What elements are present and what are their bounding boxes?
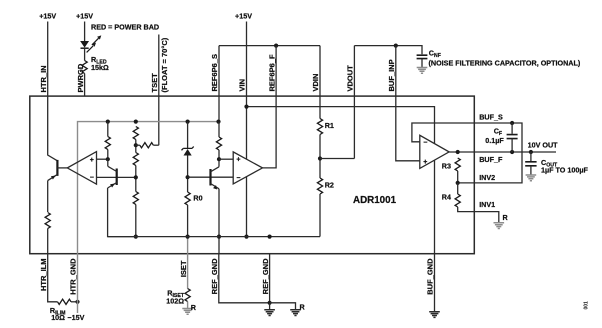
wire R_ILIM to HTR_GND wire bbox=[71, 301, 78, 303]
svg-text:REF6P6_F: REF6P6_F bbox=[267, 54, 276, 92]
resistor R0 bbox=[185, 192, 190, 205]
wire BUF_INP pin down to buffer + input bbox=[396, 46, 420, 161]
capacitor C_OUT bbox=[525, 162, 536, 166]
svg-text:INV2: INV2 bbox=[479, 173, 495, 182]
wire HTR_ILM pin down to R_ILIM bbox=[48, 254, 58, 302]
svg-text:R: R bbox=[503, 213, 509, 222]
wire C_NF to ground bbox=[421, 59, 423, 67]
resistor R6c bbox=[133, 192, 138, 205]
wire INV2 node to R4 bbox=[457, 183, 459, 194]
wire REF6P6_S pin down to internal node bbox=[218, 46, 220, 122]
svg-text:15kΩ: 15kΩ bbox=[91, 63, 109, 72]
wire bus to ISET pin (gray) bbox=[187, 237, 189, 254]
wire bus node to zener cathode bbox=[187, 122, 189, 149]
svg-text:TSET: TSET bbox=[150, 73, 159, 93]
svg-text:REF_GND: REF_GND bbox=[261, 258, 270, 294]
svg-text:VDOUT: VDOUT bbox=[346, 65, 355, 92]
op-amp U2 output buffer (points right) bbox=[420, 135, 449, 168]
wire R5 to A1 + node bbox=[107, 150, 109, 160]
wire A1 + input bbox=[97, 158, 108, 160]
svg-text:ADR1001: ADR1001 bbox=[353, 195, 397, 206]
wire +15V supply to LED anode bbox=[84, 22, 86, 42]
wire R6c to bottom bus bbox=[135, 205, 137, 237]
wire R8 to A2 + node bbox=[218, 150, 220, 159]
node A1 - tap bbox=[134, 175, 138, 179]
wire to HTR_ILM pin bbox=[47, 229, 49, 254]
resistor R6b bbox=[133, 153, 138, 166]
svg-text:1µF TO 100µF: 1µF TO 100µF bbox=[541, 166, 589, 175]
wire bus node to resistor R5 bbox=[107, 122, 109, 137]
wire A2 + input bbox=[219, 158, 233, 160]
svg-text:(NOISE FILTERING CAPACITOR, OP: (NOISE FILTERING CAPACITOR, OPTIONAL) bbox=[429, 59, 581, 68]
wire C_F to BUF_F node bbox=[511, 139, 513, 152]
svg-text:R: R bbox=[300, 302, 306, 311]
svg-text:10Ω: 10Ω bbox=[51, 313, 65, 322]
svg-text:+: + bbox=[423, 159, 427, 166]
wire HTR_GND pin down to -15V (gray) bbox=[77, 254, 79, 313]
wire R4 to INV1 and ground bbox=[458, 207, 499, 222]
resistor R5 (to A1 + input) bbox=[105, 137, 110, 150]
node U2 output / R3 bbox=[456, 150, 460, 154]
resistor R1 bbox=[317, 119, 322, 135]
wire ISET pin down to R_ISET (gray) bbox=[187, 254, 189, 289]
wire R1 to R2 bbox=[319, 135, 321, 179]
wire TSET pin (floating top end) down to internal divider bbox=[158, 35, 160, 146]
node gray bus / R6 chain bbox=[134, 120, 138, 124]
svg-text:REF_GND: REF_GND bbox=[210, 258, 219, 294]
wire A1 output to Q1 base bbox=[57, 167, 67, 169]
wire 10V OUT node to C_OUT bbox=[530, 152, 532, 161]
wire TSET tap to R7 bbox=[136, 144, 140, 146]
svg-text:+15V: +15V bbox=[39, 12, 56, 21]
wire Q2 emitter down to REF_GND pin bbox=[218, 189, 220, 254]
svg-text:0.1µF: 0.1µF bbox=[485, 136, 504, 145]
wire gray ground bus (HTR_GND net) bbox=[78, 122, 219, 254]
node R1/R2 divider tap bbox=[318, 156, 322, 160]
wire R_LED to PWRGD pin bbox=[84, 74, 86, 97]
wire divider tap to VDOUT bbox=[320, 158, 354, 160]
wire HTR_IN to Q1 collector bbox=[48, 96, 58, 161]
ground C_NF bbox=[417, 68, 428, 74]
ground C_OUT bbox=[526, 175, 537, 181]
svg-text:+15V: +15V bbox=[76, 12, 93, 21]
wire A2 V- supply to bottom bus bbox=[246, 177, 248, 237]
resistor R_LED bbox=[82, 61, 87, 74]
wire VIN rail to buffer V+ supply bbox=[247, 107, 435, 144]
node Q2 emitter / bottom bus bbox=[217, 235, 221, 239]
svg-text:ISET: ISET bbox=[179, 260, 188, 277]
svg-text:VIN: VIN bbox=[238, 79, 247, 92]
IC package outline U1 ADR1001 bbox=[30, 96, 475, 254]
node REF_GND junction bbox=[268, 301, 272, 305]
node gray bus / R5 chain bbox=[106, 120, 110, 124]
wire zener node to Q2 base and A2 - input bbox=[188, 176, 234, 178]
wire zener anode to R0 bbox=[187, 156, 189, 193]
wire Q3 emitter to bottom bus bbox=[108, 188, 136, 237]
wire REF_GND junction to ground bbox=[269, 303, 271, 310]
svg-text:HTR_IN: HTR_IN bbox=[39, 65, 48, 92]
wire VDOUT pin down to R1/R2 node bbox=[353, 46, 355, 159]
wire VIN pin down to op-amp A2 supply bbox=[246, 22, 248, 160]
wire top bus joining VDOUT, BUF_INP, C_NF bbox=[354, 46, 422, 55]
wire REF_GND junction to star ground R bbox=[270, 303, 296, 310]
ground star R bbox=[290, 310, 301, 316]
wire R7 to TSET pin bbox=[153, 144, 159, 146]
transistor Q1 (heater driver) bbox=[48, 160, 58, 181]
wire LED cathode to R_LED bbox=[84, 48, 86, 60]
svg-text:RED = POWER BAD: RED = POWER BAD bbox=[91, 22, 159, 31]
wire BUF_S node to C_F bbox=[511, 123, 513, 134]
resistor R6a (TSET divider top) bbox=[133, 127, 138, 140]
resistor heater sense bbox=[45, 213, 50, 229]
node gray bus / zener chain bbox=[186, 120, 190, 124]
wire U2 V- supply down to BUF_GND pin bbox=[434, 160, 436, 253]
ground ISET (R star ground) bbox=[182, 309, 193, 315]
svg-text:R1: R1 bbox=[325, 121, 334, 130]
svg-text:−: − bbox=[236, 175, 240, 182]
svg-text:BUF_F: BUF_F bbox=[479, 155, 503, 164]
node A2 + / Q2 collector bbox=[217, 157, 221, 161]
resistor R8 (REF6P6_S chain) bbox=[216, 137, 221, 150]
resistor R7 (TSET horizontal) bbox=[140, 143, 154, 148]
wire bottom bus bbox=[108, 236, 320, 238]
wire REF6P6_S node to R8 bbox=[218, 122, 220, 137]
node A2 V- / bottom bus bbox=[244, 235, 248, 239]
svg-text:REF6P6_S: REF6P6_S bbox=[210, 54, 219, 92]
svg-text:HTR_ILM: HTR_ILM bbox=[39, 259, 48, 292]
svg-text:−: − bbox=[423, 139, 427, 146]
node VIN / buffer supply rail bbox=[244, 105, 248, 109]
resistor R2 bbox=[317, 178, 322, 194]
node R3/R4/INV2 bbox=[456, 181, 460, 185]
node A1 + / Q3 collector bbox=[106, 157, 110, 161]
svg-text:BUF_INP: BUF_INP bbox=[387, 59, 396, 91]
svg-text:INV1: INV1 bbox=[479, 200, 495, 209]
wire R2 to bottom bus bbox=[319, 194, 321, 237]
svg-text:10V OUT: 10V OUT bbox=[528, 140, 559, 149]
svg-text:R: R bbox=[191, 303, 197, 312]
node BUF_S / C_F bbox=[510, 121, 514, 125]
resistor R_ILIM bbox=[58, 299, 72, 304]
wire R0 to bottom bus bbox=[187, 205, 189, 237]
node REF6P6_F tap on top bus bbox=[274, 44, 278, 48]
wire REF_GND 2 down bbox=[269, 254, 271, 303]
wire REF_GND 1 down and over to REF_GND 2 bbox=[219, 254, 270, 303]
svg-text:+: + bbox=[236, 157, 240, 164]
node BUF_INP tap on top bus bbox=[394, 44, 398, 48]
svg-text:+15V: +15V bbox=[235, 12, 252, 21]
svg-text:R2: R2 bbox=[325, 180, 334, 189]
svg-text:001: 001 bbox=[584, 301, 590, 310]
wire U2 - input loop to BUF_S and down to INV2 bbox=[412, 123, 522, 183]
node TSET tap bbox=[134, 143, 138, 147]
wire top bus joining REF6P6_S, REF6P6_F, VDIN bbox=[219, 45, 320, 47]
resistor R_ISET bbox=[185, 289, 190, 302]
node BUF_F / C_F bbox=[510, 150, 514, 154]
svg-text:(FLOAT = 70°C): (FLOAT = 70°C) bbox=[160, 37, 169, 92]
svg-text:−: − bbox=[90, 175, 94, 182]
ground BUF_GND bbox=[429, 312, 440, 318]
capacitor C_NF bbox=[417, 55, 428, 58]
wire R6b to R6c bbox=[135, 166, 137, 192]
wire U2 output to BUF_F and 10V OUT bbox=[449, 151, 556, 153]
wire +15V supply to HTR_IN pin bbox=[47, 22, 49, 97]
transistor Q2 bbox=[211, 159, 220, 189]
wire A1 - input to R6 chain bbox=[97, 176, 136, 178]
ground REF_GND bbox=[264, 310, 275, 316]
svg-text:R4: R4 bbox=[442, 193, 451, 202]
node gray bus / REF6P6_S bbox=[216, 120, 220, 124]
svg-text:BUF_S: BUF_S bbox=[479, 112, 503, 121]
node bottom bus / REF_GND 2 bbox=[268, 235, 272, 239]
svg-text:R3: R3 bbox=[442, 161, 451, 170]
op-amp A1 (heater amp, points left) bbox=[67, 152, 96, 185]
zener diode D2 bbox=[182, 147, 194, 156]
resistor R3 bbox=[455, 158, 460, 171]
wire C_OUT to ground bbox=[530, 166, 532, 175]
svg-text:102Ω: 102Ω bbox=[166, 297, 184, 306]
wire R6a to R6b bbox=[135, 140, 137, 153]
node 10V OUT / C_OUT bbox=[529, 150, 533, 154]
wire VDIN pin down to R1 bbox=[319, 46, 321, 119]
capacitor C_F bbox=[507, 135, 518, 139]
svg-text:HTR_GND: HTR_GND bbox=[69, 258, 78, 295]
wire BUF_GND pin down to ground bbox=[434, 254, 436, 312]
svg-text:PWRGD: PWRGD bbox=[76, 63, 85, 92]
ground INV1 (R star ground) bbox=[494, 223, 505, 229]
resistor R4 bbox=[455, 194, 460, 207]
svg-text:−15V: −15V bbox=[67, 313, 84, 322]
node R_ILIM / HTR_GND bbox=[75, 300, 79, 304]
svg-text:BUF_GND: BUF_GND bbox=[426, 258, 435, 295]
node R6c / bottom bus bbox=[134, 235, 138, 239]
wire REF6P6_F pin down to A2 output bbox=[263, 46, 277, 168]
wire R3 to INV2 node bbox=[457, 171, 459, 183]
node R0 / bottom bus / ISET bbox=[186, 235, 190, 239]
svg-text:+: + bbox=[90, 157, 94, 164]
wire R_ISET to ground (gray) bbox=[187, 302, 189, 309]
LED D1 (power bad indicator) bbox=[81, 35, 102, 52]
wire Q1 emitter down bbox=[47, 181, 49, 212]
op-amp A2 (reference amp, points right) bbox=[233, 152, 262, 184]
transistor Q3 bbox=[108, 159, 117, 188]
svg-text:R0: R0 bbox=[193, 193, 202, 202]
node zener anode / Q2 base bbox=[186, 175, 190, 179]
svg-text:VDIN: VDIN bbox=[311, 74, 320, 92]
